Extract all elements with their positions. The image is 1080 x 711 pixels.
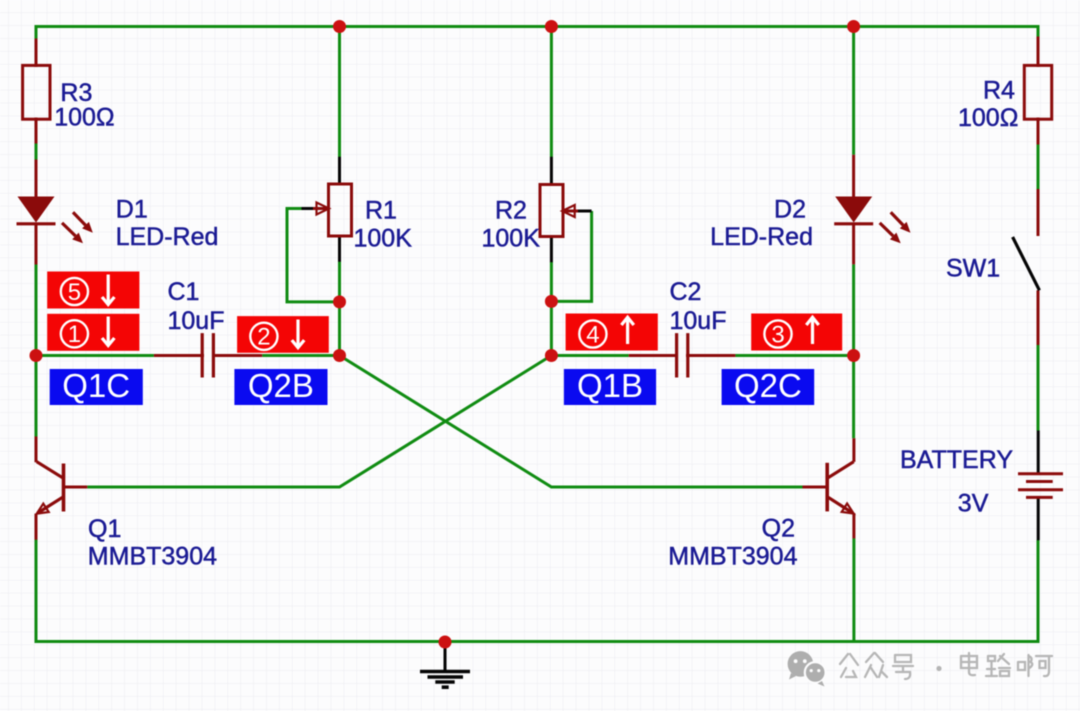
node label Q2C [722, 367, 815, 405]
transistor Q1 [36, 437, 87, 540]
wire node Q1C horizontal left [36, 354, 154, 357]
resistor R4 [1024, 65, 1051, 119]
wire right rail segment between R4 and SW1 [1037, 145, 1040, 190]
svg-text:100Ω: 100Ω [54, 104, 114, 132]
svg-text:100K: 100K [482, 225, 541, 253]
svg-text:R3: R3 [60, 79, 92, 107]
wire Q2 emitter to bottom rail [852, 538, 855, 641]
wire cross diagonal to Q2 base [340, 356, 803, 488]
resistor R3 pins [35, 39, 38, 144]
svg-text:3V: 3V [958, 490, 989, 518]
capacitor C2 [677, 333, 688, 377]
wire R2 top column [550, 25, 553, 157]
transistor Q2 [803, 438, 854, 538]
svg-text:Q2B: Q2B [248, 367, 314, 404]
svg-text:Q1: Q1 [88, 515, 121, 543]
capacitor C1 pins [154, 354, 262, 357]
wire R1 bottom column [338, 262, 341, 356]
svg-text:C1: C1 [168, 278, 200, 306]
watermark text [840, 653, 1052, 679]
battery BT1 [1018, 474, 1063, 498]
wire D2 top column [852, 25, 855, 155]
LED D1 pins [35, 160, 38, 265]
svg-text:10uF: 10uF [168, 307, 225, 335]
svg-text:1: 1 [68, 321, 81, 348]
capacitor C1 [202, 333, 213, 377]
step label 2 down [237, 316, 329, 353]
junction node top D2 [847, 20, 860, 33]
LED D1 [17, 197, 93, 244]
wire cross diagonal to Q1 base [87, 356, 551, 488]
wire R1 top column [338, 25, 341, 157]
svg-text:4: 4 [586, 321, 599, 348]
junction node Q2B [333, 349, 346, 362]
wire left rail segment between R3 and D1 [35, 144, 38, 160]
svg-text:100Ω: 100Ω [958, 104, 1018, 132]
svg-text:LED-Red: LED-Red [710, 223, 813, 251]
wire R1 wiper loop [287, 209, 340, 302]
ground [420, 643, 470, 687]
svg-text:R2: R2 [495, 197, 527, 225]
wire top rail VCC [36, 27, 1038, 40]
svg-text:100K: 100K [354, 225, 413, 253]
junction node Q2C right [847, 349, 860, 362]
svg-text:R1: R1 [365, 197, 397, 225]
potentiometer R2 [540, 185, 578, 237]
wire node Q1B horizontal left of C2 [551, 354, 628, 357]
wire left rail D1 cathode to Q1 collector [35, 264, 38, 437]
junction node R2 wiper [545, 295, 558, 308]
wire R2 bottom column [550, 262, 553, 356]
LED D2 [834, 197, 910, 244]
svg-text:5: 5 [68, 279, 81, 306]
svg-text:LED-Red: LED-Red [116, 223, 219, 251]
switch SW1 lever [1013, 237, 1040, 290]
junction node Q1C left [30, 349, 43, 362]
resistor R4 pins [1037, 37, 1040, 145]
potentiometer R1 pins [302, 157, 340, 262]
junction node R1 wiper [333, 295, 346, 308]
svg-text:D1: D1 [116, 196, 148, 224]
svg-text:D2: D2 [774, 196, 806, 224]
junction node ground [439, 636, 452, 649]
switch SW1 pins [1037, 189, 1040, 345]
svg-text:BATTERY: BATTERY [900, 446, 1013, 474]
resistor R3 [23, 65, 50, 119]
wire R2 wiper loop [551, 211, 591, 301]
svg-text:C2: C2 [670, 278, 702, 306]
svg-text:10uF: 10uF [670, 307, 727, 335]
potentiometer R2 pins [551, 157, 591, 262]
junction node Q1B [545, 349, 558, 362]
wire node Q2B horizontal right of C1 [262, 354, 339, 357]
svg-text:MMBT3904: MMBT3904 [668, 543, 797, 571]
wire node Q2C horizontal right of C2 [735, 354, 853, 357]
step label 3 up [751, 314, 842, 351]
svg-text:R4: R4 [983, 77, 1015, 105]
svg-text:Q1B: Q1B [577, 367, 643, 404]
step label 1 down [47, 314, 139, 351]
wire bottom rail with Q1 emitter and right rail bottom [36, 540, 1038, 642]
LED D2 pins [852, 155, 855, 265]
svg-text:Q2: Q2 [762, 515, 795, 543]
capacitor C2 pins [629, 354, 736, 357]
node label Q1B [564, 367, 656, 405]
svg-text:SW1: SW1 [946, 255, 1000, 283]
svg-text:MMBT3904: MMBT3904 [88, 543, 217, 571]
svg-text:Q1C: Q1C [62, 367, 130, 404]
node label Q1C [50, 367, 143, 405]
junction node top R2 [545, 20, 558, 33]
junction node top R1 [333, 20, 346, 33]
wire right rail SW1 to battery [1037, 345, 1040, 431]
svg-text:Q2C: Q2C [734, 367, 802, 404]
node label Q2B [234, 367, 327, 405]
wire D2 cathode to Q2 collector [852, 264, 855, 438]
svg-text:3: 3 [771, 321, 784, 348]
svg-text:2: 2 [257, 324, 270, 351]
step label 5 down [47, 272, 139, 309]
step label 4 up [566, 314, 658, 351]
battery BT1 pins [1037, 431, 1040, 541]
potentiometer R1 [313, 184, 352, 236]
watermark wechat icon [788, 651, 826, 686]
